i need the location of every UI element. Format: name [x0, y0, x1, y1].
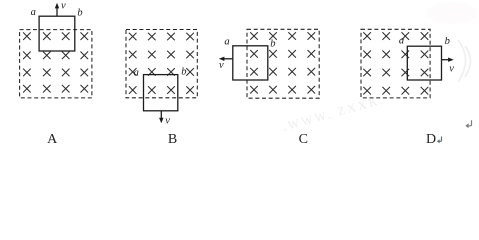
watermark arcs [458, 40, 471, 82]
velocity arrow B (down) [159, 111, 163, 124]
field region A (dashed boundary) [20, 30, 92, 98]
svg-text:a: a [134, 68, 139, 79]
flux crosses C [250, 32, 315, 93]
flux crosses D [363, 32, 428, 94]
svg-text:b: b [270, 39, 275, 50]
svg-text:A: A [47, 132, 58, 147]
paragraph return mark after D [437, 137, 442, 144]
svg-text:v: v [449, 64, 454, 75]
svg-text:b: b [445, 36, 450, 47]
flux crosses A [23, 32, 88, 92]
svg-text:v: v [165, 116, 170, 127]
svg-text:a: a [31, 7, 36, 18]
svg-text:b: b [77, 8, 82, 19]
svg-text:b: b [181, 67, 186, 78]
loop C (conducting coil) [233, 46, 268, 80]
field region B (dashed boundary) [126, 30, 197, 98]
velocity arrow C (left) [219, 57, 233, 61]
svg-text:v: v [61, 1, 66, 12]
svg-text:C: C [299, 132, 308, 147]
svg-text:B: B [168, 132, 177, 147]
paragraph return mark upper right [465, 120, 471, 128]
flux crosses B [129, 33, 194, 94]
svg-text:v: v [219, 60, 224, 71]
loop A (conducting coil) [39, 16, 75, 51]
velocity arrow A (up) [55, 3, 59, 16]
loop D (conducting coil) [407, 46, 441, 80]
field region D (dashed boundary) [361, 29, 430, 98]
svg-text:a: a [224, 36, 229, 47]
svg-text:a: a [399, 36, 404, 47]
loop B (conducting coil) [144, 75, 178, 111]
field region C (dashed boundary) [247, 29, 319, 98]
watermark smudge top right [426, 2, 478, 24]
watermark text [281, 92, 387, 134]
svg-text:D: D [426, 132, 436, 147]
velocity arrow D (right) [442, 58, 454, 62]
